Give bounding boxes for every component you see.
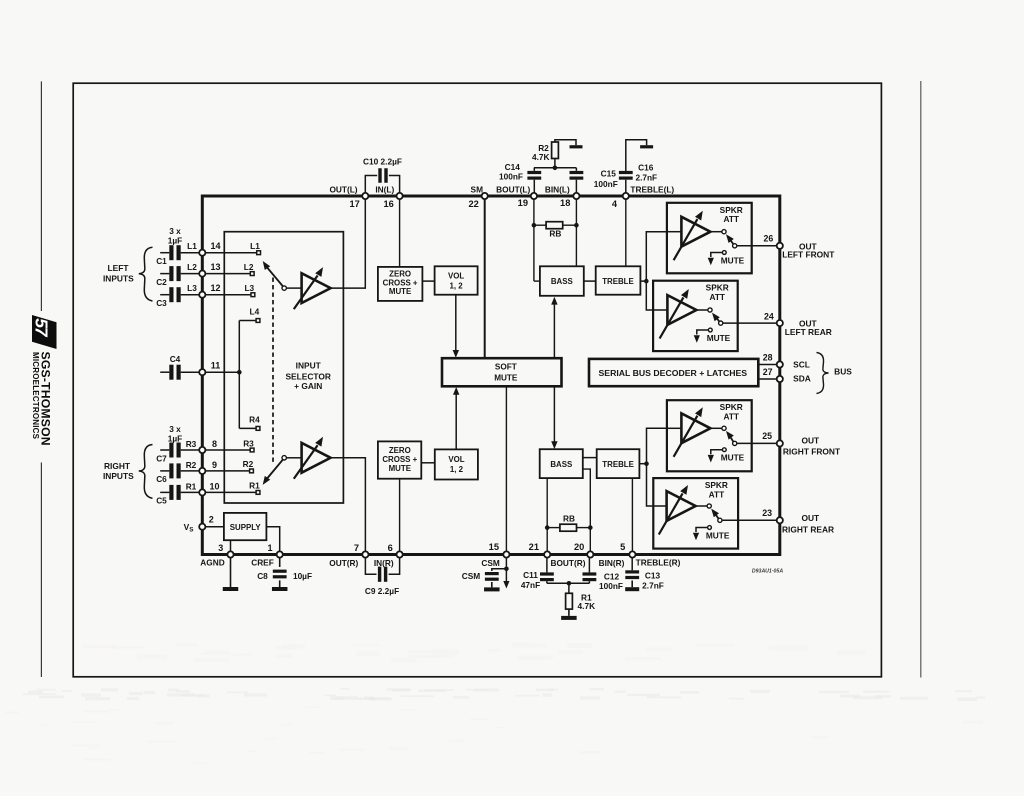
svg-text:C16: C16 (638, 162, 654, 172)
svg-text:R1: R1 (186, 481, 197, 491)
wire input right rear (653, 505, 666, 507)
svg-text:17: 17 (349, 199, 359, 209)
svg-text:MUTE: MUTE (707, 333, 731, 343)
terminal L2 (250, 272, 254, 276)
capacitor C15 on BIN(L) (570, 171, 584, 174)
svg-text:C1: C1 (156, 256, 167, 266)
wire R2 top to supply (555, 140, 576, 145)
switch arm left front (729, 238, 733, 244)
svg-text:100nF: 100nF (499, 172, 523, 182)
pin 17 (362, 193, 368, 199)
svg-text:CSM: CSM (462, 571, 481, 581)
block SOFT MUTE (442, 358, 562, 386)
wire amp out left rear (696, 309, 708, 311)
switch arm left rear (715, 316, 719, 321)
svg-text:RB: RB (563, 513, 575, 523)
pin 2 (199, 524, 205, 530)
svg-text:23: 23 (762, 508, 772, 518)
wire supply to pin3 (230, 540, 232, 554)
svg-text:+ GAIN: + GAIN (294, 381, 322, 391)
right inputs brace (139, 445, 153, 499)
svg-text:R4: R4 (249, 415, 260, 425)
switch contact b right rear (718, 518, 722, 522)
pin 24 (777, 320, 783, 326)
svg-text:57: 57 (32, 318, 52, 338)
svg-text:16: 16 (383, 199, 393, 209)
svg-text:C13: C13 (645, 571, 661, 581)
wire input left rear (653, 309, 667, 311)
block BASS left (540, 266, 584, 296)
wire pin15 down (505, 555, 507, 569)
svg-text:TREBLE(R): TREBLE(R) (636, 558, 681, 568)
resistor R2 (552, 142, 559, 159)
wire L4 terminal (239, 320, 256, 322)
svg-text:LEFT FRONT: LEFT FRONT (782, 250, 835, 260)
capacitor C1 (169, 245, 173, 260)
svg-text:BIN(L): BIN(L) (545, 184, 570, 194)
wire to output pin left rear (723, 322, 780, 324)
svg-text:SOFT: SOFT (495, 362, 517, 371)
wire input left front (667, 231, 682, 233)
svg-text:25: 25 (762, 431, 772, 441)
svg-text:11: 11 (211, 361, 221, 371)
svg-text:RB: RB (549, 229, 561, 239)
svg-text:CROSS +: CROSS + (382, 455, 417, 464)
wire treble1 to spkr att 2 (646, 281, 653, 310)
block SERIAL BUS DECODER + LATCHES (589, 359, 758, 386)
pin 11 (199, 369, 205, 375)
capacitor C7 (169, 443, 173, 458)
svg-text:R3: R3 (243, 438, 254, 448)
switch contact a right rear (707, 504, 711, 508)
pin 28 (777, 361, 783, 367)
svg-text:MUTE: MUTE (706, 530, 730, 540)
block VOL 1,2 right (435, 449, 478, 479)
svg-text:L1: L1 (250, 241, 260, 251)
wire pin16 to zero cross 1 (399, 196, 401, 267)
wire C11-C12 bottoms (547, 582, 590, 584)
SGS-THOMSON logo (31, 315, 57, 446)
wire R2 bottom node (554, 159, 556, 168)
wire amp out left front (710, 231, 722, 233)
capacitor C11 (540, 572, 554, 575)
pin 12 (199, 292, 205, 298)
wire OUT(L) pin17 to C10 (365, 176, 377, 197)
wire pin20 up to bass2 side (583, 469, 591, 554)
pin 15 (503, 551, 509, 557)
svg-text:10: 10 (209, 481, 219, 491)
svg-text:2.7nF: 2.7nF (642, 581, 664, 591)
pin 7 (362, 551, 368, 557)
wire wiper2 to amp2 (286, 457, 301, 459)
svg-text:ATT: ATT (709, 489, 725, 499)
wire soft mute to bass1 arrow (553, 304, 555, 358)
svg-text:LEFT REAR: LEFT REAR (785, 327, 832, 337)
capacitor CSM (485, 572, 499, 575)
wire treble2 to spkr att 3 (647, 428, 667, 463)
mute terminal left rear (708, 328, 712, 332)
wire amp2 out to OUT(R) (331, 458, 366, 555)
svg-text:24: 24 (764, 312, 774, 322)
node CSM (504, 567, 509, 572)
wire bass1 to treble1 (584, 280, 596, 282)
svg-text:OUT(R): OUT(R) (329, 558, 358, 568)
svg-text:C9 2.2µF: C9 2.2µF (365, 586, 399, 596)
svg-text:26: 26 (764, 234, 774, 244)
svg-text:MUTE: MUTE (721, 453, 745, 463)
svg-text:SCL: SCL (793, 360, 810, 370)
svg-text:BOUT(L): BOUT(L) (496, 184, 530, 194)
svg-text:15: 15 (489, 542, 499, 552)
capacitor C10 (378, 168, 381, 183)
svg-text:OUT: OUT (801, 513, 820, 523)
pin 3 (227, 551, 233, 557)
op-amp A2 variable gain (302, 443, 331, 473)
svg-text:INPUT: INPUT (296, 361, 322, 371)
wire node to R1 (568, 583, 570, 593)
terminal R4 (256, 427, 260, 431)
svg-text:C2: C2 (156, 277, 167, 287)
wire CSM node to cap (492, 569, 507, 571)
mute terminal right front (722, 448, 726, 452)
ground below C13 (631, 581, 633, 588)
svg-text:C7: C7 (156, 453, 167, 463)
node RB left a (532, 223, 537, 228)
wire SM pin22 to soft mute (484, 196, 486, 358)
wire to output pin left front (737, 245, 780, 247)
page border frame (73, 83, 881, 677)
arrow below CSM node (505, 569, 507, 581)
svg-text:RIGHT FRONT: RIGHT FRONT (783, 447, 841, 457)
svg-text:2: 2 (209, 515, 214, 525)
svg-text:ZERO: ZERO (389, 270, 411, 279)
svg-text:MICROELECTRONICS: MICROELECTRONICS (31, 352, 40, 440)
svg-text:L1: L1 (187, 241, 197, 251)
svg-text:SERIAL BUS DECODER + LATCHES: SERIAL BUS DECODER + LATCHES (599, 368, 748, 378)
wire input right front (667, 427, 682, 429)
block BASS right (540, 449, 583, 478)
block SUPPLY (224, 513, 267, 540)
capacitor C2 (169, 266, 173, 281)
wire to output pin right front (737, 442, 780, 444)
svg-text:VOL: VOL (448, 272, 464, 281)
block SPKR ATT right rear (653, 478, 738, 548)
wire pin19 down to bass1 (533, 196, 535, 281)
switch arm right rear (714, 512, 718, 518)
svg-text:19: 19 (518, 198, 528, 208)
wire serial to pin27 (758, 378, 780, 380)
op-amp SPKR left rear (667, 295, 696, 325)
wire pin7 to C9 (365, 555, 376, 575)
pin 26 (777, 243, 783, 249)
pin 8 (199, 447, 205, 453)
pin 18 (573, 193, 579, 199)
pin 19 (531, 193, 537, 199)
pin 9 (199, 468, 205, 474)
switch contact b left front (733, 244, 737, 248)
ground below C8 (279, 580, 281, 587)
svg-text:L3: L3 (244, 283, 254, 293)
resistor RB left (546, 222, 563, 229)
mute terminal left front (722, 251, 726, 255)
op-amp SPKR right rear (667, 491, 696, 521)
svg-text:ATT: ATT (723, 214, 739, 224)
wire R4 terminal (239, 427, 256, 429)
node R1 (567, 581, 572, 586)
terminal R2 (250, 469, 254, 473)
svg-text:28: 28 (763, 352, 773, 362)
node L4R4 (237, 370, 242, 375)
terminal R1 (256, 491, 260, 495)
svg-text:D93AU1·05A: D93AU1·05A (752, 568, 783, 574)
switch arm right front (729, 435, 733, 442)
svg-text:TREBLE(L): TREBLE(L) (630, 184, 674, 194)
wire wiper1 to amp1 (286, 287, 301, 289)
pin 5 (629, 551, 635, 557)
capacitor C14 (527, 171, 541, 174)
supply bar for C16 (640, 145, 653, 148)
capacitor C5 (169, 485, 173, 500)
svg-text:ATT: ATT (723, 411, 739, 421)
svg-text:SDA: SDA (793, 373, 811, 383)
svg-text:22: 22 (468, 199, 478, 209)
resistor RB right (560, 524, 577, 531)
right rule line (920, 81, 922, 678)
svg-text:CREF: CREF (251, 558, 274, 568)
wire zc2 to vol2 (421, 462, 435, 464)
pin 6 (397, 551, 403, 557)
svg-text:8: 8 (212, 439, 217, 449)
svg-text:ATT: ATT (709, 292, 725, 302)
svg-text:5: 5 (620, 542, 625, 552)
svg-text:OUT: OUT (801, 435, 820, 445)
wire pin13 to L2 terminal (202, 273, 250, 275)
block TREBLE left (596, 266, 641, 294)
pin 1 (277, 551, 283, 557)
right selector wiper arm (282, 456, 286, 460)
svg-text:13: 13 (210, 262, 220, 272)
svg-text:100nF: 100nF (594, 179, 618, 189)
wire pin2 to supply (202, 526, 224, 528)
svg-text:BASS: BASS (551, 277, 573, 286)
capacitor C9 (378, 567, 381, 582)
svg-text:14: 14 (210, 241, 220, 251)
svg-text:BASS: BASS (550, 460, 572, 469)
svg-text:BIN(R): BIN(R) (599, 558, 625, 568)
resistor R1 (566, 593, 573, 609)
block VOL 1,2 left (435, 266, 478, 294)
svg-text:1µF: 1µF (168, 434, 182, 444)
svg-text:18: 18 (560, 198, 570, 208)
wire soft mute to pin15 (505, 386, 507, 554)
wire serial to pin28 (758, 364, 780, 366)
svg-text:MUTE: MUTE (494, 373, 518, 382)
svg-text:OUT(L): OUT(L) (329, 184, 357, 194)
svg-text:MUTE: MUTE (389, 464, 411, 473)
svg-text:VOL: VOL (448, 455, 464, 464)
wire RB left leads (534, 224, 546, 226)
wire pin8 to R3 terminal (202, 449, 250, 451)
svg-text:1µF: 1µF (168, 236, 182, 246)
node RB right a (545, 525, 550, 530)
svg-text:21: 21 (529, 542, 539, 552)
svg-text:BUS: BUS (834, 367, 852, 377)
block ZERO CROSS + MUTE left (378, 267, 423, 301)
wire treble1 output node (640, 280, 646, 282)
svg-text:6: 6 (388, 543, 393, 553)
block SPKR ATT left front (667, 203, 752, 273)
svg-text:CROSS +: CROSS + (383, 278, 418, 287)
wire C10 to IN(L) pin16 (389, 176, 400, 197)
selector mechanical dashed link (272, 278, 274, 464)
wire C16 top to supply (626, 140, 647, 172)
svg-text:C6: C6 (156, 474, 167, 484)
svg-text:7: 7 (354, 543, 359, 553)
pin 21 (544, 551, 550, 557)
svg-text:INPUTS: INPUTS (103, 471, 134, 481)
mute terminal right rear (708, 526, 712, 530)
wire pin1 stub (279, 555, 281, 568)
wire supply to pin1 (266, 527, 279, 555)
svg-text:C3: C3 (156, 298, 167, 308)
svg-text:MUTE: MUTE (389, 287, 411, 296)
svg-text:1, 2: 1, 2 (450, 465, 464, 474)
svg-text:SM: SM (471, 184, 484, 194)
block ZERO CROSS + MUTE right (378, 441, 421, 478)
wire pin9 to R2 terminal (202, 470, 249, 472)
input selector box (224, 232, 343, 503)
svg-text:R3: R3 (186, 439, 197, 449)
svg-text:4: 4 (612, 199, 618, 209)
svg-text:C14: C14 (505, 162, 521, 172)
wire amp1 out to OUT(L) (331, 196, 366, 288)
wire RB right leads (547, 527, 560, 529)
ground below CSM cap (491, 582, 493, 587)
capacitor C12 (583, 572, 597, 575)
wire amp out right front (710, 427, 722, 429)
svg-text:C5: C5 (156, 496, 167, 506)
node RB left b (574, 223, 579, 228)
svg-text:12: 12 (210, 283, 220, 293)
switch contact a right front (722, 426, 726, 430)
svg-text:C15: C15 (601, 168, 617, 178)
wire pin3 to ground (230, 555, 232, 588)
svg-text:L4: L4 (250, 307, 260, 317)
wire C9 to pin6 (389, 555, 400, 575)
svg-text:L2: L2 (187, 262, 197, 272)
svg-text:RIGHT REAR: RIGHT REAR (782, 525, 834, 535)
bus brace (817, 353, 829, 394)
svg-text:BOUT(R): BOUT(R) (550, 558, 585, 568)
op-amp SPKR right front (681, 413, 710, 443)
svg-text:C12: C12 (604, 571, 620, 581)
capacitor C8 (273, 570, 287, 573)
svg-text:20: 20 (574, 542, 584, 552)
pin 22 (482, 193, 488, 199)
wire L4/R4 vertical (238, 321, 240, 429)
svg-text:CSM: CSM (481, 558, 500, 568)
wire pin11 to node (202, 371, 239, 373)
left selector wiper arm (282, 286, 286, 290)
op-amp A1 variable gain (302, 273, 331, 303)
terminal L3 (251, 293, 255, 297)
wire pin5 up to treble2 (631, 478, 633, 554)
wire treble1 to spkr att 1 (646, 232, 667, 281)
terminal L1 (257, 251, 261, 255)
op-amp SPKR left front (681, 217, 710, 247)
scan noise bands (324, 695, 336, 697)
svg-text:1: 1 (267, 543, 272, 553)
pin 25 (777, 440, 783, 446)
pin 14 (199, 250, 205, 256)
svg-text:C4: C4 (170, 354, 181, 364)
wire vol1 to soft mute with arrow (455, 295, 457, 352)
wire pin12 to L3 terminal (202, 294, 251, 296)
switch contact a left front (722, 230, 726, 234)
wire bass2 to treble2 (583, 457, 597, 459)
svg-text:4.7K: 4.7K (532, 152, 550, 162)
wire pin18 down to bass1 top (575, 196, 577, 266)
svg-text:MUTE: MUTE (721, 255, 745, 265)
svg-text:SUPPLY: SUPPLY (230, 523, 262, 532)
left inputs brace (139, 247, 153, 301)
svg-text:C10 2.2µF: C10 2.2µF (363, 156, 402, 166)
svg-text:4.7K: 4.7K (578, 601, 596, 611)
wire pin14 to L1 terminal (202, 252, 256, 254)
svg-text:INPUTS: INPUTS (103, 274, 134, 284)
svg-text:100nF: 100nF (599, 581, 623, 591)
svg-text:C8: C8 (257, 571, 268, 581)
svg-text:LEFT: LEFT (108, 263, 130, 273)
wire vol2 to soft mute with arrow (455, 394, 457, 450)
pin 4 (623, 193, 629, 199)
capacitor C16 on TREBLE(L) (619, 171, 633, 174)
wire to output pin right rear (722, 519, 780, 521)
svg-text:3: 3 (218, 543, 223, 553)
svg-text:L3: L3 (187, 283, 197, 293)
svg-text:IN(L): IN(L) (375, 184, 394, 194)
wire zc1 to vol1 (422, 280, 434, 282)
svg-text:TREBLE: TREBLE (602, 460, 634, 469)
svg-text:9: 9 (212, 460, 217, 470)
pin 27 (777, 376, 783, 382)
left rule line lower (40, 463, 42, 678)
pin 20 (587, 551, 593, 557)
capacitor C3 (169, 287, 173, 302)
svg-text:2.7nF: 2.7nF (635, 172, 657, 182)
svg-text:ZERO: ZERO (389, 446, 411, 455)
wire treble2 to spkr att 4 (647, 464, 654, 506)
pin 16 (397, 193, 403, 199)
switch contact b left rear (719, 321, 723, 325)
wire pin6 to zero cross 2 (399, 479, 401, 555)
svg-text:RIGHT: RIGHT (104, 461, 131, 471)
svg-text:1, 2: 1, 2 (450, 282, 464, 291)
svg-text:R1: R1 (249, 481, 260, 491)
svg-text:47nF: 47nF (521, 580, 540, 590)
wire pin10 to R1 terminal (202, 491, 256, 493)
IC TDA main block outline (202, 196, 780, 555)
terminal R3 (250, 448, 254, 452)
node R2/C14/C15 (534, 167, 577, 169)
svg-text:AGND: AGND (200, 558, 224, 568)
block TREBLE right (597, 449, 640, 478)
terminal L4 (256, 319, 260, 323)
block SPKR ATT left rear (653, 281, 738, 351)
ground below R1 (568, 609, 570, 616)
switch contact b right front (733, 441, 737, 445)
pin 10 (199, 489, 205, 495)
